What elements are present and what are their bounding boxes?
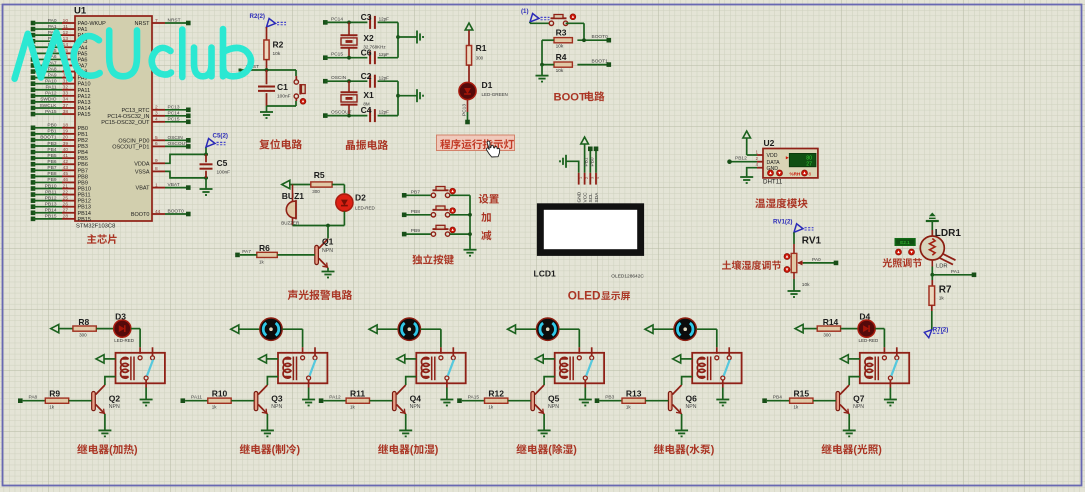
svg-text:3: 3 bbox=[155, 111, 158, 117]
label 继电器(加热) bbox=[77, 444, 138, 456]
svg-text:PA15: PA15 bbox=[78, 112, 91, 118]
power arrow R14 bbox=[795, 324, 817, 332]
mcu pin PB7 (43) wire PB7 bbox=[31, 165, 88, 174]
capacitor C5 100nF bbox=[200, 154, 231, 178]
svg-text:R8: R8 bbox=[78, 317, 89, 327]
svg-text:28: 28 bbox=[63, 214, 69, 220]
wire PB8 to key2 bbox=[407, 214, 432, 216]
svg-text:RV1: RV1 bbox=[802, 236, 822, 247]
mcu pin PB3 (39) wire PB3 bbox=[31, 141, 88, 150]
led D2 LED-RED bbox=[336, 193, 376, 212]
svg-text:R15: R15 bbox=[794, 389, 810, 399]
label BOOT-circuit bbox=[554, 91, 605, 103]
motor load Q6 bbox=[674, 318, 696, 340]
wire RV1 bottom to ground bbox=[793, 273, 795, 291]
svg-text:20: 20 bbox=[63, 135, 69, 141]
mcu pin PA7 (17) wire PA7 bbox=[31, 60, 88, 69]
svg-text:1k: 1k bbox=[794, 404, 800, 409]
wire Q3 collector to relay coil bbox=[267, 377, 278, 385]
svg-text:3: 3 bbox=[591, 177, 595, 179]
led D4 LED-RED bbox=[841, 311, 879, 343]
key button 3 bbox=[431, 225, 455, 236]
svg-text:(: ( bbox=[548, 444, 552, 456]
mcu pin PA10 (31) wire PA10 bbox=[31, 79, 91, 88]
svg-text:OLED: OLED bbox=[568, 288, 601, 302]
svg-text:19: 19 bbox=[63, 129, 69, 135]
relay Q4 box bbox=[416, 347, 465, 383]
svg-text:Q3: Q3 bbox=[271, 393, 283, 403]
wire Q7 emitter to ground bbox=[848, 414, 850, 430]
wire R5 to D2 bbox=[332, 185, 344, 194]
svg-text:PB8: PB8 bbox=[411, 209, 420, 215]
svg-text:%RH: %RH bbox=[790, 171, 801, 176]
resistor R10 1k bbox=[208, 389, 231, 410]
svg-text:PA11: PA11 bbox=[45, 85, 56, 91]
wire relay Q4 common to ground bbox=[446, 380, 448, 400]
wire Q5 emitter to ground bbox=[543, 414, 545, 430]
power bar LDR bbox=[926, 213, 939, 237]
svg-text:X1: X1 bbox=[363, 90, 374, 100]
label temp-humidity-module bbox=[755, 198, 807, 208]
svg-text:2: 2 bbox=[155, 105, 158, 111]
svg-text:PA1: PA1 bbox=[48, 24, 57, 30]
svg-text:SWDIO: SWDIO bbox=[40, 97, 57, 103]
probe R7(2) bbox=[924, 326, 948, 338]
svg-text:18: 18 bbox=[63, 123, 69, 129]
svg-text:1k: 1k bbox=[350, 404, 356, 409]
wire PA15 to R12 bbox=[462, 400, 485, 402]
svg-text:12pF: 12pF bbox=[379, 110, 390, 115]
node C5 bottom bbox=[204, 176, 208, 180]
rail X1 right bbox=[396, 81, 400, 115]
svg-text:R6: R6 bbox=[259, 243, 270, 253]
LDR buttons bbox=[896, 249, 915, 255]
svg-text:NPN: NPN bbox=[853, 404, 864, 410]
svg-text:42: 42 bbox=[63, 159, 69, 165]
svg-text:): ) bbox=[573, 444, 577, 456]
ground X1 bbox=[417, 89, 423, 102]
led D1 LED-GREEN bbox=[459, 80, 508, 100]
svg-text:R9: R9 bbox=[49, 389, 60, 399]
wire key2 to rail bbox=[450, 214, 470, 216]
wire PB9 to key3 bbox=[407, 233, 432, 235]
wire C4 to rail bbox=[378, 115, 398, 117]
label run-indicator highlighted bbox=[437, 135, 515, 151]
svg-text:NPN: NPN bbox=[410, 404, 421, 410]
terminal PC13 bottom bbox=[465, 120, 470, 125]
wire R9 to Q2 base bbox=[69, 400, 92, 402]
resistor R12 1k bbox=[485, 389, 508, 410]
wire relay Q5 common to ground bbox=[584, 380, 586, 400]
svg-text:PB4: PB4 bbox=[47, 147, 56, 153]
svg-text:PC13: PC13 bbox=[462, 104, 468, 116]
svg-text:21: 21 bbox=[63, 183, 69, 189]
svg-text:LDR1: LDR1 bbox=[935, 228, 962, 239]
svg-text:10k: 10k bbox=[556, 68, 564, 74]
wire motor to relay contact bbox=[559, 329, 579, 354]
ground Q4 bbox=[399, 430, 412, 436]
svg-text:(: ( bbox=[109, 444, 113, 456]
svg-text:C1: C1 bbox=[277, 82, 288, 92]
resistor R1 300 bbox=[466, 43, 486, 65]
svg-text:12: 12 bbox=[63, 30, 69, 36]
svg-text:PB1: PB1 bbox=[47, 129, 56, 135]
svg-text:Q7: Q7 bbox=[853, 393, 865, 403]
wire LDR to PA1 node bbox=[930, 260, 934, 277]
wire Q4 collector to relay coil bbox=[406, 377, 417, 385]
svg-text:22: 22 bbox=[63, 189, 69, 195]
svg-text:PB3: PB3 bbox=[605, 395, 614, 401]
svg-text:PA8: PA8 bbox=[48, 66, 57, 72]
svg-text:PC15: PC15 bbox=[331, 52, 343, 58]
svg-text:PA15: PA15 bbox=[45, 109, 57, 115]
svg-text:12pF: 12pF bbox=[379, 52, 390, 57]
resistor R11 1k bbox=[346, 389, 369, 410]
svg-text:DATA: DATA bbox=[767, 160, 781, 166]
svg-text:1: 1 bbox=[579, 177, 583, 179]
wire VSSA to C5 rail bbox=[165, 171, 204, 178]
terminal PB9 bbox=[402, 228, 420, 236]
svg-text:PB1: PB1 bbox=[584, 157, 590, 166]
svg-text:PB9: PB9 bbox=[47, 177, 56, 183]
wire R2 to NRST node bbox=[266, 59, 268, 70]
svg-text:PB13: PB13 bbox=[45, 202, 57, 208]
wire probe to RV1 bbox=[793, 232, 795, 253]
mcu U1 chip body STM32F103C8 bbox=[74, 6, 152, 230]
ground OLED GND bbox=[560, 155, 579, 173]
capacitor C6 12pF bbox=[361, 47, 390, 64]
svg-text:100nF: 100nF bbox=[277, 94, 291, 100]
OLED pins 1-4 GND VCC SCL SDA bbox=[577, 173, 601, 203]
svg-text:): ) bbox=[711, 444, 715, 456]
power arrow OLED VCC bbox=[581, 137, 589, 173]
svg-text:11: 11 bbox=[63, 24, 68, 30]
key button 1 bbox=[431, 187, 455, 198]
svg-text:C3: C3 bbox=[361, 12, 372, 22]
svg-text:LED-RED: LED-RED bbox=[114, 338, 135, 343]
label 继电器(光照) bbox=[822, 444, 883, 456]
wire PA12 to R11 bbox=[323, 400, 346, 402]
motor load Q4 bbox=[398, 318, 420, 340]
svg-text:1k: 1k bbox=[488, 404, 494, 409]
wire reset bottom bbox=[267, 106, 297, 112]
svg-text:PB12: PB12 bbox=[45, 195, 57, 201]
wire R7 to probe bbox=[931, 305, 933, 330]
relay Q3 box bbox=[278, 347, 327, 383]
ground relay Q5 bbox=[579, 400, 592, 406]
mcu pin PA14 (37) wire SWCLK bbox=[31, 103, 91, 112]
svg-text:D2: D2 bbox=[355, 193, 366, 203]
transistor Q3 NPN bbox=[254, 385, 283, 414]
wire PB3 to R13 bbox=[599, 400, 622, 402]
watermark MCUclub bbox=[15, 29, 251, 79]
svg-text:PA12: PA12 bbox=[45, 91, 57, 97]
relay Q7 box bbox=[860, 347, 909, 383]
wire RV1 wiper to PA0 bbox=[803, 257, 834, 263]
terminal PA1 bbox=[972, 273, 977, 278]
svg-text:PB10: PB10 bbox=[45, 183, 57, 189]
ground relay Q3 bbox=[302, 400, 315, 406]
svg-text:PA10: PA10 bbox=[45, 79, 57, 85]
wire R3 to BOOT0 bbox=[577, 34, 608, 42]
svg-text:R13: R13 bbox=[626, 389, 642, 399]
svg-text:PC15-OSC32_OUT: PC15-OSC32_OUT bbox=[101, 120, 150, 126]
svg-text:PC15: PC15 bbox=[168, 116, 180, 122]
svg-text:10k: 10k bbox=[273, 51, 281, 57]
svg-text:PB3: PB3 bbox=[47, 141, 56, 147]
svg-text:PB15: PB15 bbox=[45, 214, 57, 220]
terminal PB0 SDA bbox=[589, 147, 598, 173]
svg-text:NRST: NRST bbox=[135, 21, 151, 27]
svg-text:VCC: VCC bbox=[582, 192, 588, 203]
svg-text:LED-GREEN: LED-GREEN bbox=[482, 92, 508, 97]
svg-text:10: 10 bbox=[63, 18, 69, 24]
resistor R5 300 bbox=[311, 170, 332, 194]
svg-text:OSCIN: OSCIN bbox=[168, 135, 184, 141]
power arrow relay Q7 coil bbox=[840, 355, 860, 363]
svg-text:BOOT0: BOOT0 bbox=[168, 209, 185, 215]
svg-text:VDD: VDD bbox=[767, 153, 778, 159]
svg-text:STM32F103C8: STM32F103C8 bbox=[76, 224, 115, 230]
svg-text:PB11: PB11 bbox=[45, 189, 57, 195]
svg-text:BOOT0: BOOT0 bbox=[131, 212, 150, 218]
mcu pin PB12 (25) wire PB12 bbox=[31, 195, 91, 204]
wire relay Q3 common to ground bbox=[308, 380, 310, 400]
mcu pin PA6 (16) wire PA6 bbox=[31, 54, 88, 63]
svg-text:37: 37 bbox=[63, 103, 69, 109]
svg-text:4: 4 bbox=[155, 117, 158, 123]
svg-text:Q5: Q5 bbox=[548, 393, 560, 403]
label reset-circuit bbox=[259, 139, 302, 149]
transistor Q7 NPN bbox=[836, 385, 865, 414]
terminal PA11 bbox=[181, 395, 203, 403]
svg-text:(: ( bbox=[410, 444, 414, 456]
mcu pin OSCIN_PD0 (5) bbox=[118, 135, 190, 145]
terminal PB4 bbox=[762, 395, 782, 403]
mcu pin PA11 (32) wire PA11 bbox=[31, 85, 90, 94]
wire motor to relay contact bbox=[282, 329, 302, 354]
label light-adjust bbox=[883, 258, 922, 267]
ground Q7 bbox=[843, 430, 856, 436]
motor load Q3 bbox=[260, 318, 282, 340]
svg-text:E2.1: E2.1 bbox=[900, 240, 910, 245]
ground relay Q4 bbox=[440, 400, 453, 406]
wire C2 to rail bbox=[378, 80, 398, 82]
terminal PB3 bbox=[595, 395, 615, 403]
wire NRST net bbox=[239, 64, 297, 72]
power arrow relay Q3 coil bbox=[259, 355, 279, 363]
svg-text:80: 80 bbox=[806, 155, 812, 161]
terminal OSCOUT bbox=[323, 110, 352, 118]
mcu pin PA12 (33) wire PA12 bbox=[31, 91, 91, 100]
wire OSCIN row bbox=[325, 79, 367, 83]
svg-text:7: 7 bbox=[155, 18, 158, 24]
svg-text:): ) bbox=[435, 444, 439, 456]
svg-text:D3: D3 bbox=[115, 311, 126, 321]
svg-text:PB5: PB5 bbox=[47, 153, 56, 159]
transistor Q6 NPN bbox=[668, 385, 697, 414]
svg-text:): ) bbox=[878, 444, 882, 456]
mcu pin PA15 (38) wire PA15 bbox=[31, 109, 91, 118]
resistor R3 10k bbox=[554, 28, 572, 50]
resistor R6 1k bbox=[257, 243, 278, 265]
svg-text:Q1: Q1 bbox=[322, 237, 334, 247]
svg-text:PB12: PB12 bbox=[735, 156, 747, 162]
svg-text:OSCOUT_PD1: OSCOUT_PD1 bbox=[112, 144, 149, 150]
svg-text:LED-RED: LED-RED bbox=[355, 205, 376, 210]
terminal PC15 bbox=[323, 52, 343, 60]
svg-text:PC13: PC13 bbox=[168, 104, 180, 110]
relay Q5 box bbox=[555, 347, 604, 383]
svg-text:R5: R5 bbox=[314, 170, 325, 180]
mcu pin PB1 (19) wire PB1 bbox=[31, 129, 88, 138]
svg-text:1k: 1k bbox=[212, 404, 218, 409]
wire to X1 ground bbox=[398, 95, 417, 97]
svg-text:1: 1 bbox=[155, 182, 158, 188]
wire motor to relay contact bbox=[696, 329, 716, 354]
transistor Q1 NPN bbox=[315, 237, 334, 268]
svg-text:RV1(2): RV1(2) bbox=[773, 218, 793, 225]
mcu pin PA2 (12) wire PA2 bbox=[31, 30, 88, 39]
wire PA11 to R10 bbox=[185, 400, 208, 402]
terminal PB8 bbox=[402, 209, 420, 217]
mcu pin PB2 (20) wire BOOT1 bbox=[31, 135, 88, 144]
wire boot button right bbox=[566, 23, 584, 40]
terminal PA12 bbox=[319, 395, 341, 403]
svg-text:PA8: PA8 bbox=[29, 395, 38, 401]
wire to X2 ground bbox=[398, 36, 417, 38]
wire Q5 collector to relay coil bbox=[544, 377, 555, 385]
ground relay Q2 bbox=[140, 400, 153, 406]
svg-text:Q2: Q2 bbox=[109, 393, 121, 403]
svg-text:R7: R7 bbox=[939, 285, 952, 296]
mcu pin PA0-WKUP (10) wire PA0 bbox=[31, 18, 106, 27]
svg-text:BOOT0: BOOT0 bbox=[592, 34, 609, 40]
wire Q4 emitter to ground bbox=[405, 414, 407, 430]
svg-text:10k: 10k bbox=[556, 44, 564, 50]
power arrow R1 bbox=[465, 23, 473, 46]
svg-text:PA9: PA9 bbox=[48, 72, 57, 78]
svg-text:43: 43 bbox=[63, 165, 69, 171]
label main-chip bbox=[87, 234, 117, 244]
ground BOOT bbox=[536, 76, 549, 82]
wire D4 to relay contact bbox=[875, 329, 884, 354]
wire R3 left bbox=[542, 39, 554, 41]
label 继电器(除湿) bbox=[516, 444, 577, 456]
svg-text:4: 4 bbox=[596, 177, 600, 179]
svg-text:PA7: PA7 bbox=[242, 249, 251, 255]
label minus bbox=[481, 230, 491, 240]
wire PA8 to R9 bbox=[23, 400, 46, 402]
LDR light-level display bbox=[895, 239, 915, 246]
cursor hand bbox=[486, 141, 499, 157]
svg-text:13: 13 bbox=[63, 36, 69, 42]
wire PA7 to R6 bbox=[240, 254, 257, 256]
resistor R2 10k bbox=[264, 40, 284, 60]
mcu pin VSSA (8) bbox=[135, 166, 165, 175]
svg-text:8: 8 bbox=[155, 166, 158, 172]
power arrow motor Q4 bbox=[369, 325, 398, 333]
svg-text:300: 300 bbox=[312, 189, 320, 194]
mcu pin PC13_RTC (2) bbox=[121, 104, 190, 114]
potentiometer RV1 10k bbox=[784, 236, 822, 289]
svg-text:C4: C4 bbox=[361, 105, 372, 115]
svg-text:9: 9 bbox=[155, 158, 158, 164]
svg-text:2: 2 bbox=[585, 177, 589, 179]
svg-text:PA15: PA15 bbox=[468, 395, 480, 401]
crystal X2 32.768KHz bbox=[341, 22, 387, 57]
svg-text:NPN: NPN bbox=[686, 404, 697, 410]
power arrow motor Q3 bbox=[231, 325, 260, 333]
svg-text:R3: R3 bbox=[556, 28, 567, 38]
power arrow relay Q4 coil bbox=[397, 355, 417, 363]
svg-text:25: 25 bbox=[63, 195, 69, 201]
svg-text:R10: R10 bbox=[212, 389, 228, 399]
transistor Q4 NPN bbox=[393, 385, 422, 414]
transistor Q2 NPN bbox=[92, 385, 121, 414]
ground Q5 bbox=[538, 430, 551, 436]
svg-text:PB14: PB14 bbox=[45, 208, 57, 214]
mcu pin OSCOUT_PD1 (6) bbox=[112, 141, 190, 151]
svg-text:PB15: PB15 bbox=[78, 217, 91, 223]
wire key1 to rail bbox=[450, 194, 470, 196]
wire PA1 bbox=[932, 269, 972, 275]
terminal BOOT1 bbox=[607, 62, 612, 67]
wire node to R7 bbox=[931, 275, 933, 286]
svg-text:PB7: PB7 bbox=[47, 165, 56, 171]
ground X2 bbox=[417, 31, 423, 44]
svg-text:27: 27 bbox=[63, 208, 69, 214]
ground under C5 bbox=[200, 178, 213, 195]
boot button bbox=[549, 14, 576, 26]
svg-text:8: 8 bbox=[809, 171, 812, 176]
svg-text:X2: X2 bbox=[363, 33, 374, 43]
svg-text:U1: U1 bbox=[74, 6, 87, 17]
ground Q6 bbox=[675, 430, 688, 436]
svg-text:C5(2): C5(2) bbox=[213, 133, 228, 140]
probe C5(2) bbox=[206, 133, 228, 155]
svg-text:33: 33 bbox=[63, 91, 69, 97]
svg-text:U2: U2 bbox=[764, 138, 775, 148]
label OLED-display bbox=[568, 288, 630, 302]
mcu pin PB5 (41) wire PB5 bbox=[31, 153, 88, 162]
svg-text:12pF: 12pF bbox=[379, 75, 390, 80]
svg-text:PB8: PB8 bbox=[47, 171, 56, 177]
svg-text:1k: 1k bbox=[49, 404, 55, 409]
wire R4 left rail bbox=[540, 40, 554, 75]
svg-text:C6: C6 bbox=[361, 47, 372, 57]
svg-text:LDR: LDR bbox=[936, 264, 948, 270]
ground RV1 bbox=[788, 291, 801, 297]
svg-text:DHT11: DHT11 bbox=[763, 179, 783, 186]
svg-text:6: 6 bbox=[155, 141, 158, 147]
mcu pin PC14-OSC32_IN (3) bbox=[107, 110, 190, 120]
svg-text:39: 39 bbox=[63, 141, 69, 147]
svg-text:R1: R1 bbox=[476, 43, 487, 53]
keys common rail bbox=[468, 195, 472, 249]
resistor R7 1k bbox=[929, 285, 952, 306]
wire motor to relay contact bbox=[421, 329, 441, 354]
svg-text:NPN: NPN bbox=[271, 404, 282, 410]
ground Q2 bbox=[98, 430, 111, 436]
wire probe to R2 bbox=[266, 27, 268, 40]
wire PC14 row bbox=[325, 21, 367, 25]
svg-text:BOOT1: BOOT1 bbox=[592, 59, 609, 65]
svg-text:100nF: 100nF bbox=[217, 170, 231, 176]
svg-text:D4: D4 bbox=[859, 311, 870, 321]
wire D3 to relay contact bbox=[131, 329, 140, 354]
svg-text:PC14: PC14 bbox=[168, 110, 180, 116]
